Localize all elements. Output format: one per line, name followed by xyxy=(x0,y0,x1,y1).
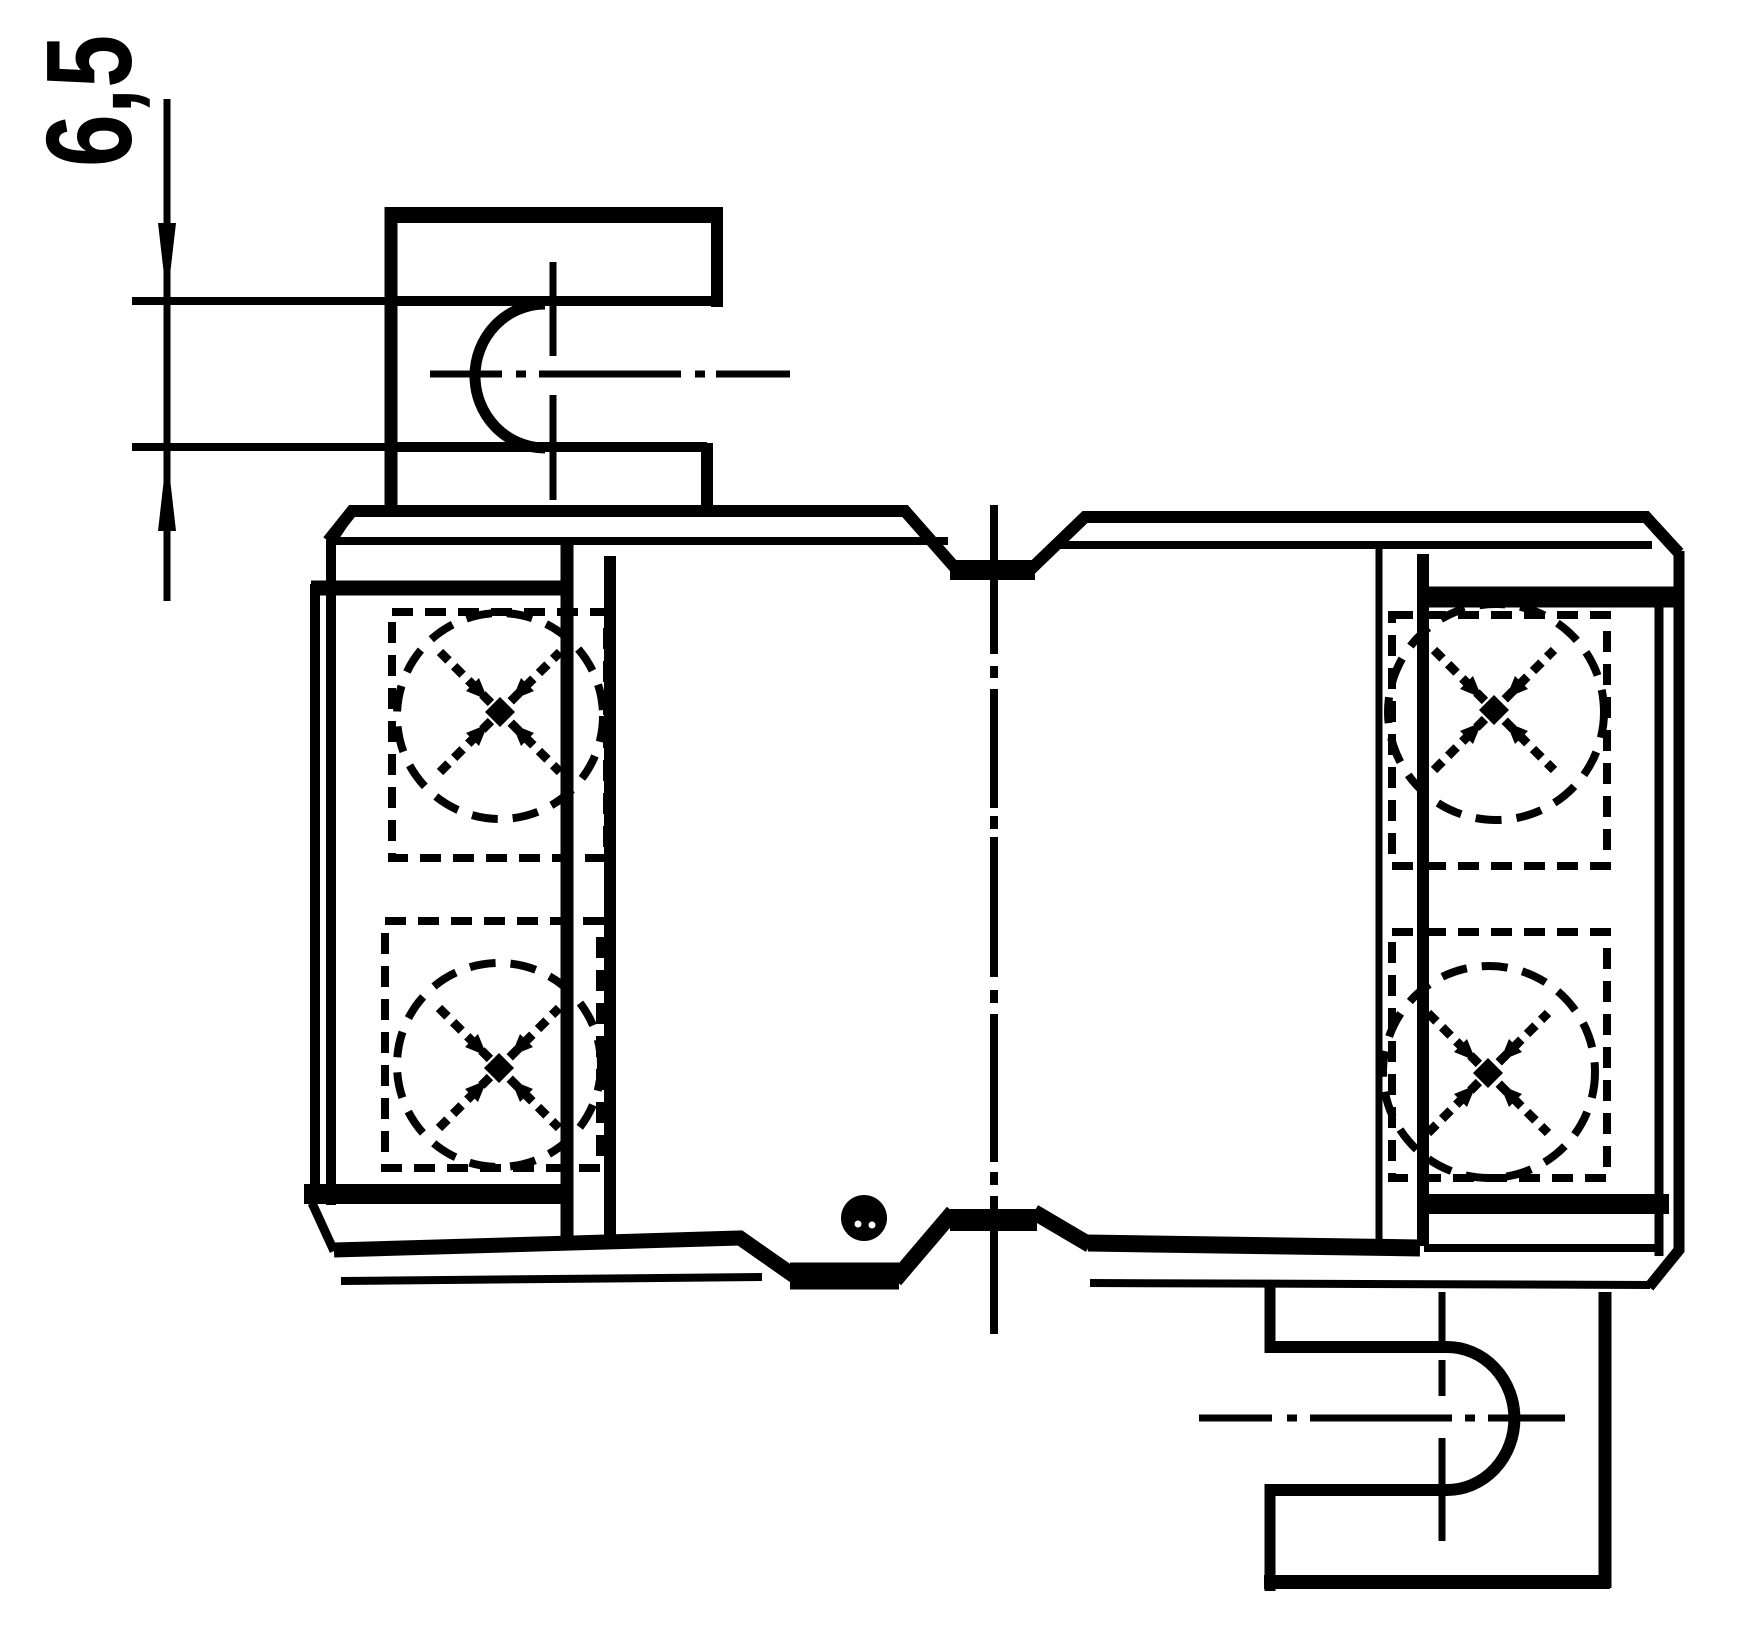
bottom clevis tab left edge upper xyxy=(1265,1285,1276,1353)
body left outer (collar) edge xyxy=(310,584,320,1190)
top clevis tab left edge xyxy=(385,207,398,505)
top clevis slot bottom edge xyxy=(391,442,707,452)
left panel bottom band xyxy=(304,1184,572,1204)
bottom edge right lower line xyxy=(1090,1283,1650,1285)
extension line lower xyxy=(132,443,395,451)
bottom slot horizontal center line xyxy=(1199,1415,1565,1422)
right panel bottom band xyxy=(1417,1194,1669,1214)
cross recess upper left xyxy=(440,652,560,772)
filled dot xyxy=(841,1195,887,1241)
cross recess lower right xyxy=(1428,1013,1548,1133)
bottom notch right diagonal xyxy=(1034,1212,1090,1245)
cross recess lower left xyxy=(439,1008,559,1128)
bottom clevis slot top edge xyxy=(1270,1341,1447,1353)
bottom clevis tab left edge lower xyxy=(1265,1484,1276,1591)
dashed circle lower left xyxy=(397,963,601,1167)
dashed square lower left xyxy=(385,921,600,1168)
bottom left chamfer xyxy=(312,1203,334,1251)
dashed square upper left xyxy=(392,612,607,858)
bottom edge right inner line xyxy=(1424,1244,1656,1252)
top clevis tab right edge lower xyxy=(701,443,713,505)
bottom clevis tab right edge xyxy=(1599,1292,1612,1588)
top clevis slot top edge xyxy=(391,296,717,306)
dashed square upper right xyxy=(1392,615,1607,866)
left panel right edge A xyxy=(561,542,574,1248)
dashed circle upper left xyxy=(397,613,603,819)
top clevis tab top edge xyxy=(385,207,723,223)
left panel top band xyxy=(311,581,572,596)
dashed circle lower right xyxy=(1383,966,1595,1178)
bottom notch flat xyxy=(950,1209,1037,1231)
left panel right edge B xyxy=(604,556,616,1240)
top slot vertical center mark xyxy=(550,262,557,356)
bottom edge merged band xyxy=(790,1263,899,1290)
body right inner edge xyxy=(1655,595,1664,1256)
dashed circle upper right xyxy=(1388,604,1604,820)
body top edge with centre notch xyxy=(328,511,1679,570)
bottom clevis slot arc xyxy=(1447,1347,1514,1490)
bottom slot vertical center mark xyxy=(1439,1292,1446,1341)
dimension text 6,5 xyxy=(30,35,152,167)
dashed square lower right xyxy=(1392,932,1607,1178)
bottom edge left lower line xyxy=(341,1277,762,1281)
body right outer edge xyxy=(1649,551,1679,1287)
dimension arrow up xyxy=(158,452,176,531)
notch flat thick segment xyxy=(950,560,1035,580)
dimension arrow down xyxy=(158,223,176,301)
bottom edge right upper thick line xyxy=(1088,1243,1420,1248)
cross recess upper right xyxy=(1434,650,1554,770)
right panel left edge D xyxy=(1417,554,1429,1246)
extension line upper xyxy=(132,297,395,305)
body top inner line right xyxy=(1058,541,1652,549)
top slot horizontal center line xyxy=(430,371,790,378)
body left edge xyxy=(331,512,351,1205)
bottom clevis slot bottom edge xyxy=(1270,1484,1447,1496)
top clevis tab right edge upper xyxy=(711,207,723,307)
main vertical center line xyxy=(990,505,998,1334)
right panel top band xyxy=(1422,587,1674,608)
top clevis slot arc xyxy=(475,304,545,448)
bottom clevis tab bottom edge xyxy=(1264,1575,1610,1589)
bottom notch left diagonal xyxy=(895,1212,953,1280)
body top inner line left xyxy=(330,537,948,545)
bottom edge left upper line xyxy=(334,1238,800,1280)
right panel left edge C xyxy=(1376,548,1383,1246)
dimension line xyxy=(164,99,171,601)
